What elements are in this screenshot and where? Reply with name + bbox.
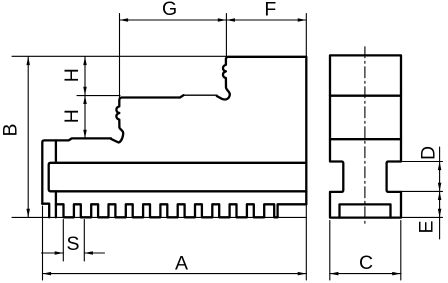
arrow E top	[438, 191, 442, 200]
arrow F left	[226, 18, 235, 22]
wire: G-F extension line middle x=226.4	[225, 14, 227, 57]
node: serrated bottom square wave	[56, 204, 306, 217]
node: middle step thin relief edge	[184, 94, 217, 96]
wire: C extension lines	[330, 221, 401, 281]
arrow G right	[218, 18, 227, 22]
arrow H1 bottom	[83, 87, 87, 96]
arrow C right	[392, 272, 401, 276]
node: middle step top edge with lip	[111, 95, 184, 142]
node: end view step divider line 1	[330, 95, 401, 97]
arrow F right	[298, 18, 307, 22]
dimension H lines	[84, 57, 86, 139]
node: lower step edge, chamfer and foot top	[42, 138, 111, 203]
node: end view outer T-slot outline	[330, 55, 401, 217]
arrow S left (outside)	[55, 251, 64, 255]
arrow H2 bottom	[83, 130, 87, 139]
wire: E bottom extension y=217.4	[401, 216, 443, 218]
svg-text:H: H	[61, 68, 83, 82]
wire: D top extension y=161.5	[401, 161, 443, 163]
wire: bottom baseline y=217.4	[12, 216, 306, 218]
dimension S outside lines	[42, 252, 105, 254]
node: foot bottom and slot verticals	[42, 140, 56, 217]
svg-text:B: B	[0, 123, 22, 136]
dimension B line	[27, 57, 29, 218]
arrow D top	[438, 162, 442, 171]
label D (rotated)	[418, 146, 440, 160]
wire: middle step short extension y=95.6	[77, 95, 120, 97]
arrow B bottom	[26, 209, 30, 218]
dimension A line	[43, 273, 307, 275]
label F	[264, 0, 276, 20]
wire: A right extension x=306.3 bottom	[305, 204, 307, 280]
arrow G left	[120, 18, 129, 22]
arrow A left	[43, 272, 52, 276]
label A	[175, 253, 188, 275]
node: end view centerline (dash-dot)	[364, 47, 366, 224]
arrow A right	[298, 272, 307, 276]
wire: D-E middle extension y=191.4	[401, 190, 443, 192]
label G	[162, 0, 177, 20]
arrow D bottom	[438, 183, 442, 192]
label C	[359, 252, 373, 274]
svg-text:D: D	[418, 146, 440, 160]
label B (rotated)	[0, 123, 22, 136]
arrow H1 top	[83, 57, 87, 66]
wire: F extension line right x=306.3 top	[305, 14, 307, 57]
node: end view step divider line 2	[330, 138, 401, 140]
label E (rotated)	[416, 220, 438, 233]
svg-text:F: F	[264, 0, 276, 20]
node: side view top step outline with serrated face	[217, 57, 306, 205]
dimension G line	[120, 19, 227, 21]
arrow C left	[330, 272, 339, 276]
arrow H2 top	[83, 95, 87, 104]
svg-text:C: C	[359, 252, 373, 274]
dimension F line	[226, 19, 306, 21]
node: end view bottom inner rectangle	[340, 204, 391, 217]
dimension D-E line	[439, 147, 441, 239]
arrow B top	[26, 57, 30, 66]
wire: A left extension x=42.5	[42, 206, 44, 280]
svg-text:A: A	[175, 253, 188, 275]
svg-text:H: H	[61, 109, 83, 123]
wire: top extension line y=56.5	[12, 55, 226, 57]
label H upper (rotated)	[61, 68, 83, 82]
svg-text:E: E	[416, 220, 438, 233]
label S	[66, 233, 79, 255]
svg-text:G: G	[162, 0, 177, 20]
dimension C line	[330, 273, 401, 275]
node: guide slab rectangle	[49, 163, 307, 192]
arrow S right (outside)	[84, 251, 93, 255]
wire: S extension lines	[63, 220, 84, 262]
wire: G-F extension line left x=119.5	[119, 14, 121, 98]
svg-text:S: S	[66, 233, 79, 255]
arrow E bottom	[438, 209, 442, 218]
label H lower (rotated)	[61, 109, 83, 123]
